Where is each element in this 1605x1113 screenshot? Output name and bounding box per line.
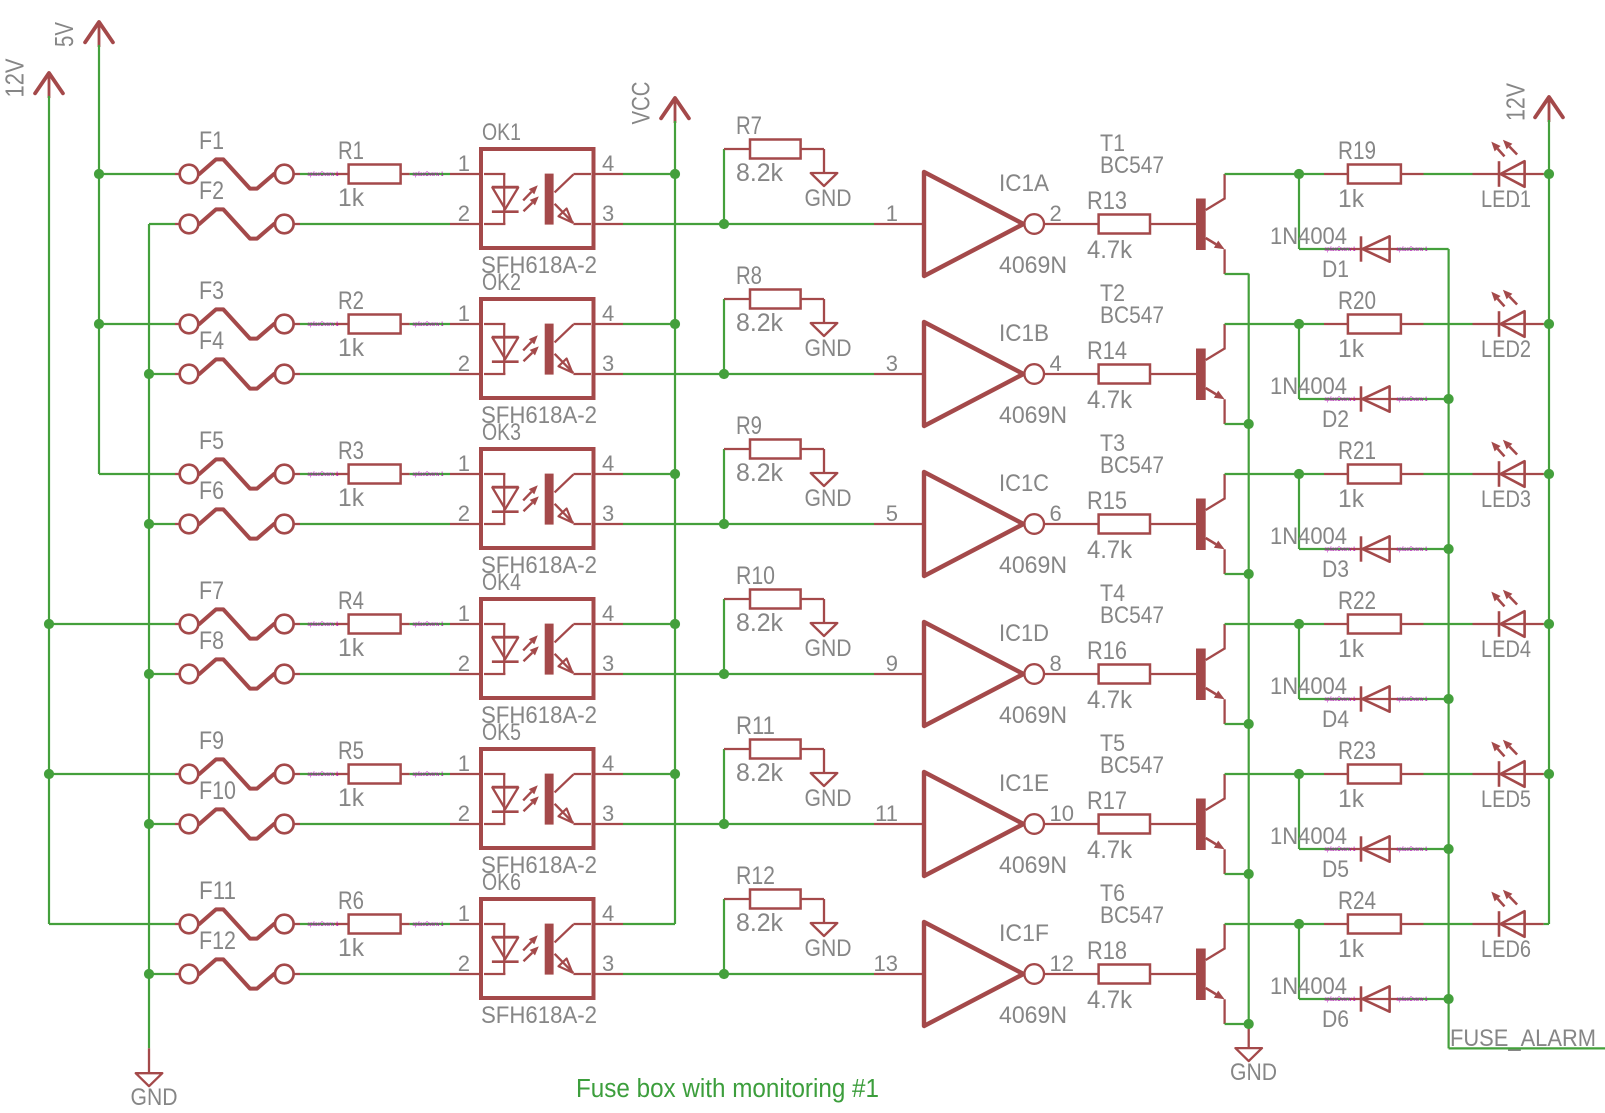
svg-text:1: 1 (458, 601, 470, 626)
svg-text:F4: F4 (199, 327, 224, 355)
svg-text:9: 9 (886, 651, 898, 676)
svg-text:2: 2 (458, 351, 470, 376)
svg-text:4.7k: 4.7k (1087, 986, 1132, 1014)
svg-text:1k: 1k (338, 484, 364, 512)
svg-text:2: 2 (458, 501, 470, 526)
svg-text:F5: F5 (199, 427, 224, 455)
svg-text:1k: 1k (338, 334, 364, 362)
svg-text:IC1B: IC1B (999, 320, 1049, 347)
svg-text:spliceOverw 1: spliceOverw 1 (308, 921, 339, 928)
svg-text:4.7k: 4.7k (1087, 236, 1132, 264)
svg-text:3: 3 (602, 801, 614, 826)
svg-text:R2: R2 (338, 287, 364, 315)
svg-text:R21: R21 (1338, 437, 1376, 465)
svg-text:4.7k: 4.7k (1087, 386, 1132, 414)
svg-text:R24: R24 (1338, 887, 1376, 915)
svg-text:4.7k: 4.7k (1087, 836, 1132, 864)
svg-text:3: 3 (602, 351, 614, 376)
svg-text:1N4004: 1N4004 (1270, 973, 1347, 1000)
svg-text:IC1E: IC1E (999, 770, 1049, 797)
svg-text:spliceOverw 1: spliceOverw 1 (308, 771, 339, 778)
svg-text:1N4004: 1N4004 (1270, 223, 1347, 250)
svg-text:4069N: 4069N (999, 702, 1067, 729)
svg-text:R23: R23 (1338, 737, 1376, 765)
svg-text:F11: F11 (199, 877, 236, 905)
svg-text:R11: R11 (736, 712, 775, 740)
svg-text:8.2k: 8.2k (736, 159, 783, 187)
svg-text:4: 4 (1050, 351, 1062, 376)
svg-text:12V: 12V (0, 58, 30, 98)
svg-text:R20: R20 (1338, 287, 1376, 315)
svg-text:GND: GND (805, 935, 852, 962)
svg-text:R22: R22 (1338, 587, 1376, 615)
svg-text:spliceOverw 1: spliceOverw 1 (1397, 996, 1428, 1003)
svg-text:11: 11 (875, 801, 898, 826)
svg-text:LED5: LED5 (1481, 786, 1531, 813)
svg-text:spliceOverw 1: spliceOverw 1 (413, 471, 444, 478)
svg-text:2: 2 (458, 201, 470, 226)
svg-text:4: 4 (602, 451, 614, 476)
svg-text:D4: D4 (1322, 706, 1349, 733)
svg-text:1N4004: 1N4004 (1270, 823, 1347, 850)
svg-text:D2: D2 (1322, 406, 1349, 433)
svg-text:1: 1 (458, 451, 470, 476)
svg-text:4.7k: 4.7k (1087, 536, 1132, 564)
svg-text:BC547: BC547 (1100, 902, 1164, 929)
svg-text:4: 4 (602, 751, 614, 776)
svg-text:LED2: LED2 (1481, 336, 1531, 363)
svg-text:OK6: OK6 (482, 869, 521, 896)
svg-text:R18: R18 (1087, 937, 1127, 965)
svg-text:BC547: BC547 (1100, 302, 1164, 329)
svg-text:D6: D6 (1322, 1006, 1349, 1033)
svg-text:spliceOverw 1: spliceOverw 1 (413, 321, 444, 328)
svg-text:3: 3 (886, 351, 898, 376)
svg-text:R19: R19 (1338, 137, 1376, 165)
svg-text:4: 4 (602, 901, 614, 926)
svg-text:4069N: 4069N (999, 852, 1067, 879)
svg-text:F6: F6 (199, 477, 224, 505)
svg-text:spliceOverw 1: spliceOverw 1 (308, 621, 339, 628)
svg-text:R1: R1 (338, 137, 364, 165)
svg-text:8.2k: 8.2k (736, 459, 783, 487)
svg-text:3: 3 (602, 951, 614, 976)
svg-text:3: 3 (602, 501, 614, 526)
svg-text:GND: GND (805, 785, 852, 812)
svg-text:4: 4 (602, 151, 614, 176)
svg-text:IC1F: IC1F (999, 920, 1049, 947)
svg-text:LED1: LED1 (1481, 186, 1531, 213)
svg-text:1N4004: 1N4004 (1270, 373, 1347, 400)
svg-text:spliceOverw 1: spliceOverw 1 (1397, 396, 1428, 403)
svg-text:R14: R14 (1087, 337, 1127, 365)
svg-text:GND: GND (805, 485, 852, 512)
svg-text:D3: D3 (1322, 556, 1349, 583)
svg-text:R17: R17 (1087, 787, 1127, 815)
svg-text:1: 1 (458, 301, 470, 326)
svg-text:R3: R3 (338, 437, 364, 465)
svg-text:1N4004: 1N4004 (1270, 673, 1347, 700)
svg-text:F9: F9 (199, 727, 224, 755)
svg-text:8: 8 (1050, 651, 1062, 676)
svg-text:LED3: LED3 (1481, 486, 1531, 513)
svg-text:GND: GND (1230, 1059, 1277, 1086)
svg-text:2: 2 (458, 651, 470, 676)
svg-text:F1: F1 (199, 127, 224, 155)
svg-text:BC547: BC547 (1100, 152, 1164, 179)
svg-text:spliceOverw 1: spliceOverw 1 (413, 621, 444, 628)
svg-text:BC547: BC547 (1100, 602, 1164, 629)
svg-text:R13: R13 (1087, 187, 1127, 215)
svg-text:1k: 1k (1338, 935, 1364, 963)
svg-text:4069N: 4069N (999, 402, 1067, 429)
svg-text:F8: F8 (199, 627, 224, 655)
svg-text:R7: R7 (736, 112, 762, 140)
svg-text:R16: R16 (1087, 637, 1127, 665)
svg-text:FUSE_ALARM: FUSE_ALARM (1450, 1025, 1596, 1052)
svg-text:F2: F2 (199, 177, 224, 205)
svg-text:spliceOverw 1: spliceOverw 1 (1397, 696, 1428, 703)
svg-text:spliceOverw 1: spliceOverw 1 (308, 171, 339, 178)
svg-text:R6: R6 (338, 887, 364, 915)
svg-text:1k: 1k (338, 934, 364, 962)
svg-text:3: 3 (602, 651, 614, 676)
svg-text:R5: R5 (338, 737, 364, 765)
svg-text:GND: GND (131, 1084, 178, 1111)
svg-text:1k: 1k (1338, 635, 1364, 663)
svg-text:F10: F10 (199, 777, 236, 805)
svg-text:spliceOverw 1: spliceOverw 1 (308, 471, 339, 478)
svg-text:1k: 1k (338, 784, 364, 812)
svg-text:1k: 1k (338, 184, 364, 212)
svg-text:spliceOverw 1: spliceOverw 1 (1397, 546, 1428, 553)
svg-text:3: 3 (602, 201, 614, 226)
svg-text:OK2: OK2 (482, 269, 521, 296)
svg-text:F7: F7 (199, 577, 224, 605)
svg-text:spliceOverw 1: spliceOverw 1 (1397, 246, 1428, 253)
svg-text:4069N: 4069N (999, 252, 1067, 279)
svg-text:2: 2 (458, 951, 470, 976)
svg-text:12V: 12V (1501, 82, 1531, 121)
svg-text:BC547: BC547 (1100, 452, 1164, 479)
svg-text:Fuse box with monitoring #1: Fuse box with monitoring #1 (576, 1075, 879, 1103)
svg-text:GND: GND (805, 185, 852, 212)
svg-text:IC1A: IC1A (999, 170, 1049, 197)
svg-text:spliceOverw 1: spliceOverw 1 (413, 171, 444, 178)
svg-text:BC547: BC547 (1100, 752, 1164, 779)
svg-text:10: 10 (1050, 801, 1074, 826)
svg-text:8.2k: 8.2k (736, 759, 783, 787)
svg-text:spliceOverw 1: spliceOverw 1 (1397, 846, 1428, 853)
svg-text:4: 4 (602, 601, 614, 626)
svg-text:6: 6 (1050, 501, 1062, 526)
svg-text:1k: 1k (1338, 185, 1364, 213)
svg-text:13: 13 (874, 951, 898, 976)
svg-text:4.7k: 4.7k (1087, 686, 1132, 714)
svg-text:5: 5 (886, 501, 898, 526)
svg-text:2: 2 (458, 801, 470, 826)
svg-text:1: 1 (458, 151, 470, 176)
svg-text:OK4: OK4 (482, 569, 521, 596)
svg-text:spliceOverw 1: spliceOverw 1 (413, 921, 444, 928)
svg-text:12: 12 (1050, 951, 1074, 976)
svg-text:R15: R15 (1087, 487, 1127, 515)
svg-text:R9: R9 (736, 412, 762, 440)
svg-text:1k: 1k (1338, 485, 1364, 513)
svg-text:8.2k: 8.2k (736, 609, 783, 637)
svg-text:R10: R10 (736, 562, 775, 590)
svg-text:D1: D1 (1322, 256, 1349, 283)
svg-text:4069N: 4069N (999, 1002, 1067, 1029)
svg-text:1: 1 (458, 751, 470, 776)
svg-text:8.2k: 8.2k (736, 309, 783, 337)
svg-text:IC1C: IC1C (999, 470, 1049, 497)
svg-text:4069N: 4069N (999, 552, 1067, 579)
svg-text:OK1: OK1 (482, 119, 521, 146)
svg-text:GND: GND (805, 635, 852, 662)
svg-text:OK3: OK3 (482, 419, 521, 446)
svg-text:LED4: LED4 (1481, 636, 1531, 663)
svg-text:D5: D5 (1322, 856, 1349, 883)
svg-text:5V: 5V (49, 21, 79, 47)
svg-text:2: 2 (1050, 201, 1062, 226)
svg-text:1k: 1k (1338, 785, 1364, 813)
svg-text:F3: F3 (199, 277, 224, 305)
svg-text:F12: F12 (199, 927, 236, 955)
svg-text:R12: R12 (736, 862, 775, 890)
svg-text:1: 1 (458, 901, 470, 926)
svg-text:spliceOverw 1: spliceOverw 1 (413, 771, 444, 778)
svg-text:1N4004: 1N4004 (1270, 523, 1347, 550)
svg-text:8.2k: 8.2k (736, 909, 783, 937)
svg-text:R8: R8 (736, 262, 762, 290)
svg-text:GND: GND (805, 335, 852, 362)
svg-text:LED6: LED6 (1481, 936, 1531, 963)
svg-text:SFH618A-2: SFH618A-2 (481, 1002, 597, 1029)
svg-text:VCC: VCC (627, 82, 655, 125)
svg-text:1k: 1k (338, 634, 364, 662)
svg-text:spliceOverw 1: spliceOverw 1 (308, 321, 339, 328)
svg-text:1: 1 (886, 201, 898, 226)
svg-text:1k: 1k (1338, 335, 1364, 363)
svg-text:OK5: OK5 (482, 719, 521, 746)
svg-text:4: 4 (602, 301, 614, 326)
svg-text:IC1D: IC1D (999, 620, 1049, 647)
svg-text:R4: R4 (338, 587, 364, 615)
